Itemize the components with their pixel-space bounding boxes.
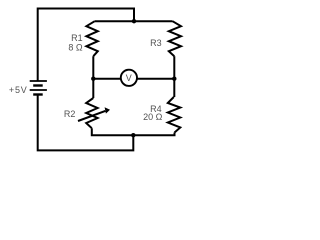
wire R1 bottom to left node	[92, 56, 94, 78]
svg-text:8 Ω: 8 Ω	[68, 43, 83, 53]
wire left node to R2 top	[92, 79, 94, 98]
svg-text:R2: R2	[64, 109, 76, 119]
junction node bottom	[131, 133, 135, 137]
resistor R4	[168, 97, 181, 133]
resistor R3	[169, 21, 181, 56]
wire R3 bottom to right node	[173, 56, 175, 78]
wire left node to voltmeter	[93, 78, 121, 80]
resistor R2 (rheostat)	[86, 98, 97, 128]
wire R4 bottom to bottom junction	[133, 133, 174, 136]
svg-text:20 Ω: 20 Ω	[143, 112, 163, 122]
resistor R1	[86, 21, 97, 56]
wire bottom junction to bottom rail to battery-	[38, 95, 134, 151]
svg-text:V: V	[126, 73, 132, 83]
wire battery+ to top-left corner to top rail drop	[38, 9, 134, 82]
svg-text:R3: R3	[150, 38, 162, 48]
battery V1 plates	[30, 81, 47, 95]
wire voltmeter to right node	[137, 78, 175, 80]
wire top rail R1 to R3	[95, 20, 173, 22]
wire right node to R4 top	[173, 79, 175, 97]
svg-text:+5V: +5V	[9, 85, 28, 95]
junction node top	[132, 19, 136, 23]
R2 wiper arrow	[78, 107, 110, 121]
junction node left	[91, 77, 95, 81]
junction node right	[172, 77, 176, 81]
svg-text:R1: R1	[71, 33, 83, 43]
wire R2 bottom to bottom junction	[92, 128, 134, 135]
voltmeter U1 circle	[121, 70, 137, 86]
